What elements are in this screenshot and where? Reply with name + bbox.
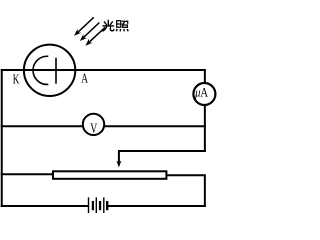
svg-text:V: V bbox=[90, 121, 97, 137]
svg-text:K: K bbox=[13, 72, 20, 87]
svg-text:A: A bbox=[81, 72, 88, 87]
svg-text:μA: μA bbox=[194, 84, 208, 99]
